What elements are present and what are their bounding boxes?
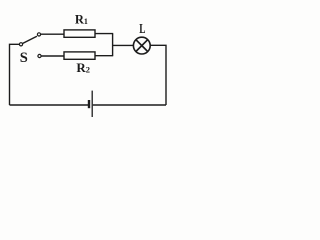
- wire: bottom contact to R2: [41, 55, 64, 57]
- svg-text:R1: R1: [75, 12, 88, 26]
- lamp L cross: [136, 40, 148, 52]
- switch S top throw contact: [37, 33, 40, 36]
- battery positive plate (long): [91, 91, 93, 117]
- svg-text:S: S: [20, 50, 28, 66]
- wire: bottom left to battery: [10, 104, 89, 106]
- resistor R2 body: [64, 52, 95, 59]
- battery negative plate (short): [88, 100, 90, 108]
- wire: battery to bottom right: [93, 104, 166, 106]
- wire: top contact to R1: [41, 33, 64, 35]
- svg-text:R2: R2: [76, 60, 90, 75]
- switch S bottom throw contact: [38, 54, 41, 57]
- wire: R1 to junction: [95, 33, 113, 35]
- wire: R2 to junction: [95, 55, 113, 57]
- wire: junction vertical: [112, 34, 114, 56]
- switch S pivot circle: [19, 43, 22, 46]
- lamp L circle: [133, 37, 150, 54]
- wire: junction to lamp: [113, 44, 134, 46]
- wire: left vertical: [10, 44, 20, 105]
- switch S lever: [23, 36, 37, 43]
- wire: lamp to right vertical: [150, 45, 166, 105]
- resistor R1 body: [64, 30, 95, 37]
- svg-text:L: L: [139, 22, 145, 37]
